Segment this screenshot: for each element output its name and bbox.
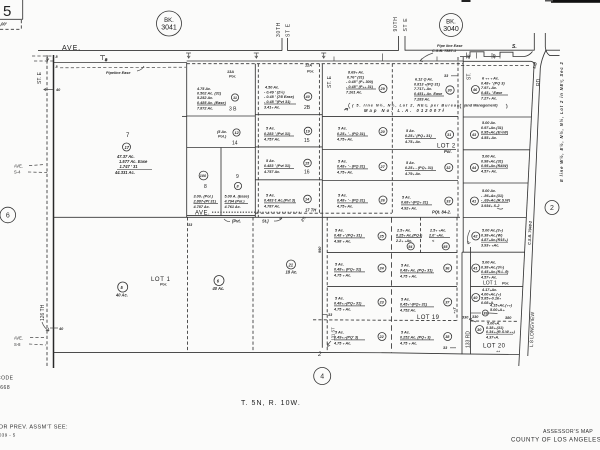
label 12A Por (305, 64, 314, 74)
svg-text:4.75₊ Ac.: 4.75₊ Ac. (336, 205, 353, 209)
label FOR PREV ASSMT (0, 425, 68, 438)
svg-text:40: 40 (305, 95, 311, 99)
row line y286.6 (327, 286, 457, 288)
parcel 6 (212, 276, 225, 292)
svg-text:CODE: CODE (0, 376, 14, 382)
svg-text:0.283 ’ (Pvt 31): 0.283 ’ (Pvt 31) (264, 132, 291, 136)
svg-text:23: 23 (379, 301, 385, 305)
vertical line x463 (462, 57, 464, 252)
svg-text:42: 42 (472, 235, 478, 239)
svg-text:3 B: 3 B (229, 107, 237, 113)
svg-text:4.752 Ac.: 4.752 Ac. (399, 309, 416, 313)
svg-text:4.757 Ac.: 4.757 Ac. (263, 138, 280, 142)
dashed row y213.2 (255, 212, 392, 214)
svg-text:- 0.48’’ (P₊₊ 31): - 0.48’’ (P₊₊ 31) (346, 85, 374, 89)
parcel 38 (399, 331, 456, 351)
pipe line ease label (top right) (420, 44, 463, 62)
svg-text:AVE.: AVE. (14, 336, 23, 341)
svg-text:380: 380 (505, 316, 512, 320)
svg-text:0.48₊ ’ (PǪ 3): 0.48₊ ’ (PǪ 3) (481, 81, 505, 85)
circle ref 4 (bottom) (314, 368, 331, 385)
svg-text:330: 330 (462, 316, 469, 320)
svg-text:0.48₊ ’ - (PǪ 31): 0.48₊ ’ - (PǪ 31) (337, 165, 366, 169)
row line y146.9 (col B) (255, 146, 322, 148)
svg-text:3.41₊ Ac.: 3.41₊ Ac. (264, 105, 280, 109)
svg-text:0.483 € Ac.(Pvt 3): 0.483 € Ac.(Pvt 3) (264, 199, 296, 203)
svg-text:BK.: BK. (164, 18, 174, 24)
svg-text:30TH: 30TH (276, 22, 282, 37)
dashed row ticks (322, 313, 469, 320)
svg-text:17 TH: 17 TH (305, 208, 317, 213)
svg-text:1.747 ’ 31: 1.747 ’ 31 (120, 164, 139, 169)
svg-text:,00': ,00' (0, 22, 8, 27)
svg-text:17: 17 (125, 145, 130, 150)
svg-text:5 Ac.: 5 Ac. (401, 264, 410, 268)
svg-text:0.813 ₊(PǪ 31): 0.813 ₊(PǪ 31) (414, 82, 441, 86)
svg-text:2.5₊ Ac.: 2.5₊ Ac. (396, 229, 411, 233)
svg-text:0.48₊₂ (PǪ₊ 31): 0.48₊₂ (PǪ₊ 31) (334, 268, 362, 272)
svg-text:26: 26 (380, 199, 386, 203)
road AVE top line (38, 50, 282, 52)
street 133 RD (462, 247, 471, 355)
svg-text:Por.: Por. (502, 282, 509, 286)
svg-text:4.757 Ac.: 4.757 Ac. (263, 170, 280, 174)
svg-text:BK.: BK. (446, 20, 456, 26)
svg-text:11: 11 (233, 96, 237, 100)
svg-text:4.37₊A.: 4.37₊A. (485, 336, 499, 340)
parcel 40 39 (452, 288, 513, 320)
svg-text:40: 40 (467, 54, 471, 60)
tick 8 on AVE (100, 56, 108, 63)
svg-text:T. 5N, R. 10W.: T. 5N, R. 10W. (241, 400, 301, 407)
svg-text:3.00₂ (Pol.): 3.00₂ (Pol.) (194, 195, 214, 199)
street 30TH ST E (top) (276, 22, 292, 51)
svg-text:4.87₊Ac.(R15₊): 4.87₊Ac.(R15₊) (480, 238, 509, 242)
svg-text:RD.: RD. (536, 77, 542, 86)
svg-text:5 Ac.: 5 Ac. (266, 194, 275, 198)
row line y114.7 (col B) (255, 114, 322, 116)
svg-text:Map No. L.A. 012007ƚ: Map No. L.A. 012007ƚ (364, 108, 446, 113)
svg-text:13A: 13A (227, 70, 234, 74)
svg-text:S-4: S-4 (14, 170, 21, 175)
svg-text:S.: S. (512, 44, 517, 50)
svg-text:2.887-(Pt 31): 2.887-(Pt 31) (193, 199, 217, 203)
svg-text:29: 29 (380, 87, 386, 91)
circle ref 6 (left edge) (0, 207, 16, 223)
svg-text:0.25₊ - (PǪ₊ 31): 0.25₊ - (PǪ₊ 31) (405, 166, 434, 170)
svg-text:5 Ac.: 5 Ac. (406, 129, 415, 133)
svg-text:14: 14 (232, 141, 238, 147)
map bottom edge (54, 352, 520, 354)
parcel 3B (196, 87, 239, 113)
row line y217.5 (col E) (463, 217, 526, 219)
svg-text:6 ₊₊ ₊ Ac.: 6 ₊₊ ₊ Ac. (482, 77, 499, 81)
parcel 30 lower / LOT 20 (469, 319, 516, 353)
AVE S-4 label (left edge) (14, 164, 47, 175)
svg-text:Por.: Por. (307, 70, 314, 74)
svg-text:4.57₊ Ac.: 4.57₊ Ac. (480, 276, 497, 280)
svg-text:- .69₊Ac.(R.S.W): - .69₊Ac.(R.S.W) (481, 199, 511, 203)
AVE approach dashes top-left (32, 56, 53, 61)
svg-text:E line W½, E½, N½, N½, Lot 2 i: E line W½, E½, N½, N½, Lot 2 in NE¼ Sec … (559, 61, 564, 182)
row line y149.8 (col E) (463, 149, 530, 151)
map top edge (54, 62, 187, 64)
svg-text:25: 25 (379, 235, 385, 239)
svg-text:40 Ac.: 40 Ac. (115, 293, 128, 298)
svg-text:PǪt. 84-2.: PǪt. 84-2. (432, 210, 451, 215)
row line y180.5 (col C,D) (322, 180, 458, 182)
parcels 54 55 row (395, 217, 450, 252)
svg-text:LOT 20: LOT 20 (483, 344, 506, 350)
svg-text:4: 4 (320, 374, 324, 381)
svg-text:4.75 ₊ Ac.: 4.75 ₊ Ac. (333, 274, 351, 278)
svg-text:46: 46 (472, 88, 478, 92)
svg-text:0.25₊ ’ - (PǪ 31): 0.25₊ ’ - (PǪ 31) (337, 132, 366, 136)
row line y149.5 (col C,D) (322, 149, 456, 151)
svg-text:990: 990 (318, 246, 322, 253)
page reference box 5 (top-left) (0, 0, 23, 29)
svg-text:ST.: ST. (467, 73, 473, 80)
svg-text:0.45₊ ’ Ease: 0.45₊ ’ Ease (481, 91, 502, 95)
svg-text:4.55₊ Ac.: 4.55₊ Ac. (480, 136, 497, 140)
svg-text:(and Management): (and Management) (464, 104, 498, 108)
AVE pvt st label (188, 208, 317, 228)
row line y179.8 (col B) (255, 179, 322, 181)
svg-text:0.48₊ ’ - (PǪ 31): 0.48₊ ’ - (PǪ 31) (337, 199, 366, 203)
svg-text:7.261 Ac.: 7.261 Ac. (346, 90, 362, 94)
svg-text:5 Ac.: 5 Ac. (266, 127, 275, 131)
svg-text:0.97₊Ac.(31): 0.97₊Ac.(31) (481, 126, 504, 130)
svg-text:- 0.48’’ (P₊ 300): - 0.48’’ (P₊ 300) (346, 80, 374, 84)
circle BK 3041 (157, 11, 182, 36)
parcel 20 (336, 127, 387, 142)
svg-text:44.331 Ac.: 44.331 Ac. (114, 170, 135, 175)
svg-text:St.): St.) (262, 219, 269, 224)
parcel 25 (333, 229, 386, 244)
parcel 16 (263, 159, 311, 176)
pipeline ease dashed (60, 66, 186, 75)
svg-text:0.95₊Ac.(E½W): 0.95₊Ac.(E½W) (481, 131, 509, 135)
svg-text:5 Ac.: 5 Ac. (266, 159, 275, 163)
svg-text:0.483 ’ (Pvt 31): 0.483 ’ (Pvt 31) (264, 164, 291, 168)
svg-text:4.50 Ac.: 4.50 Ac. (264, 86, 279, 90)
svg-text:ST E: ST E (286, 23, 292, 37)
svg-text:ST. E: ST. E (327, 75, 333, 88)
tick arrows on top boundary (186, 53, 437, 61)
svg-text:7.717₊ Ac.: 7.717₊ Ac. (414, 87, 432, 91)
svg-text:330: 330 (472, 315, 479, 319)
svg-text:4668: 4668 (0, 385, 10, 391)
svg-text:4.75 ₊ Ac.: 4.75 ₊ Ac. (333, 308, 351, 312)
label CODE 4668 (0, 376, 14, 392)
svg-text:5 Ac.: 5 Ac. (406, 161, 415, 165)
RD label (532, 61, 542, 86)
parcel 8/9 bottom y215.6 (187, 215, 256, 217)
svg-text:5 Ac.: 5 Ac. (335, 229, 344, 233)
svg-text:0.25₊’ (PǪ₊ 31): 0.25₊’ (PǪ₊ 31) (405, 134, 432, 138)
label ASSESSOR'S MAP (511, 429, 600, 444)
svg-text:8.69₊ Ac.: 8.69₊ Ac. (348, 71, 364, 75)
svg-text:5: 5 (3, 3, 11, 20)
road LONGVIEW (diagonal right) (519, 51, 546, 367)
row line y252.6 (327, 252, 457, 254)
svg-text:5 Ac.: 5 Ac. (338, 127, 347, 131)
svg-text:5 Ac.: 5 Ac. (335, 263, 344, 267)
svg-text:6.12 Ǫ Ac.: 6.12 Ǫ Ac. (415, 78, 433, 82)
svg-text:4.794 (Pol.): 4.794 (Pol.) (224, 199, 246, 203)
parcel 42 (472, 229, 509, 248)
svg-text:5.00₊A₊.: 5.00₊A₊. (490, 308, 505, 312)
parcel 33 (400, 196, 453, 211)
svg-text:3.934₊ S-2: 3.934₊ S-2 (481, 204, 500, 208)
svg-text:21: 21 (288, 262, 294, 267)
svg-text:40 Ac.: 40 Ac. (212, 286, 225, 291)
svg-text:Por.: Por. (444, 149, 452, 154)
svg-text:44: 44 (471, 166, 477, 170)
road AVE pvt solid line y217.3 (54, 216, 461, 218)
svg-text:24: 24 (379, 267, 385, 271)
svg-text:18 Ac.: 18 Ac. (286, 270, 298, 275)
street 131 ST label (bottom) (317, 327, 336, 358)
vertical line x458 dashed (D/E boundary) (457, 57, 459, 217)
svg-text:0.95₊Ac.(R&W): 0.95₊Ac.(R&W) (481, 164, 509, 168)
svg-text:FOR PREV. ASSM’T SEE:: FOR PREV. ASSM’T SEE: (0, 425, 68, 431)
svg-text:LOT 1: LOT 1 (483, 281, 497, 287)
parcel 26 (336, 194, 387, 209)
svg-text:5 Ac.: 5 Ac. (401, 298, 410, 302)
svg-text:100: 100 (200, 174, 207, 178)
svg-text:0.38₊Ac.(W): 0.38₊Ac.(W) (481, 233, 503, 237)
annotation S line (344, 103, 460, 113)
svg-text:2: 2 (317, 352, 322, 358)
parcel 37 / LOT 19 (399, 298, 452, 322)
row line y117 (col E) (463, 116, 531, 118)
svg-text:7.283 Ac.: 7.283 Ac. (414, 97, 430, 101)
svg-text:4.787 Ac.: 4.787 Ac. (263, 205, 280, 209)
svg-text:40: 40 (58, 327, 64, 331)
parcel 44 (470, 155, 508, 174)
svg-text:40: 40 (493, 53, 497, 59)
svg-text:5 Ac.: 5 Ac. (338, 160, 347, 164)
svg-text:16: 16 (304, 170, 310, 176)
parcel 17 (263, 194, 311, 209)
svg-text:0.45₊Ac.(R.L.ℎ): 0.45₊Ac.(R.L.ℎ) (481, 270, 509, 274)
svg-text:4.75 ₊ Ac.: 4.75 ₊ Ac. (399, 275, 417, 279)
svg-text:41: 41 (471, 200, 476, 204)
svg-text:9: 9 (236, 174, 239, 180)
svg-text:40: 40 (55, 88, 61, 92)
parcel 27 (336, 160, 387, 175)
label 13A Por (227, 70, 236, 79)
svg-text:0.502 Ac. (31): 0.502 Ac. (31) (197, 92, 222, 96)
svg-text:12A: 12A (305, 64, 312, 68)
svg-text:0.48₊ Ac. (PǪ₊ 31): 0.48₊ Ac. (PǪ₊ 31) (400, 269, 433, 273)
svg-text:5.00 Ac.: 5.00 Ac. (482, 261, 496, 265)
parcel 8 (193, 171, 219, 209)
svg-text:41: 41 (472, 267, 477, 271)
svg-text:LOT 19: LOT 19 (417, 315, 440, 321)
svg-text:6: 6 (6, 213, 10, 220)
svg-text:4.75 ₊ Ac.: 4.75 ₊ Ac. (333, 342, 351, 346)
AVE S-8 label (left edge lower) (14, 336, 46, 347)
svg-text:5.00 Ac.: 5.00 Ac. (482, 189, 496, 193)
svg-text:2B: 2B (304, 105, 311, 111)
parcel 24 (333, 263, 386, 278)
vertical line x186 (parcel 7 east) (186, 63, 188, 218)
svg-text:4.75 Ac.: 4.75 Ac. (196, 87, 211, 91)
svg-text:0.76’’ (31): 0.76’’ (31) (347, 75, 365, 79)
parcel 2B (264, 86, 312, 112)
svg-text:5.252 Ac.: 5.252 Ac. (197, 96, 213, 100)
vertical line x255 (254, 64, 256, 218)
parcel 5 (115, 282, 128, 298)
svg-text:ST. E: ST. E (37, 71, 43, 84)
vertical divider parcels 8/9 (220, 148, 222, 216)
svg-text:COUNTY OF LOS ANGELES,: COUNTY OF LOS ANGELES, (511, 437, 600, 444)
svg-text:4.761 Ac.: 4.761 Ac. (224, 205, 241, 209)
svg-text:- 0.49 ’ (2½): - 0.49 ’ (2½) (264, 90, 285, 94)
svg-text:5 Ac.: 5 Ac. (402, 196, 411, 200)
svg-text:0.451₊ Ac. Ease: 0.451₊ Ac. Ease (414, 92, 442, 96)
svg-text:(5 Ac.: (5 Ac. (217, 130, 227, 134)
parcel 36 (399, 264, 452, 279)
svg-text:3040: 3040 (443, 26, 459, 33)
svg-text:4.75₊ Ac.: 4.75₊ Ac. (336, 171, 353, 175)
dashed row y320 (313, 319, 457, 322)
svg-text:5.00 Ac.(3₊): 5.00 Ac.(3₊) (482, 229, 504, 233)
circle ref 2 (right edge) (545, 201, 559, 215)
parcel 41 lower / LOT 1 Por (467, 230, 509, 287)
svg-text:0.68₊’-(PǪ₊ 31): 0.68₊’-(PǪ₊ 31) (401, 201, 429, 205)
svg-text:- 0.48 ’ (7⁄8 Ease): - 0.48 ’ (7⁄8 Ease) (264, 95, 295, 99)
svg-text:0.34₊-(R.S.W.₊₊): 0.34₊-(R.S.W.₊₊) (486, 330, 516, 334)
svg-text:15: 15 (304, 138, 310, 144)
svg-text:(Pvt.: (Pvt. (232, 219, 241, 224)
svg-text:5.00 Ac.: 5.00 Ac. (482, 121, 496, 125)
svg-text:4.98 ₊ Ac.: 4.98 ₊ Ac. (333, 240, 351, 244)
svg-text:AVE.: AVE. (14, 164, 23, 169)
parcel 30 (414, 74, 458, 101)
parcel 29 (346, 71, 387, 95)
parcel 21 (286, 260, 298, 275)
svg-text:90TH: 90TH (393, 16, 399, 31)
svg-text:ST E: ST E (403, 18, 409, 32)
svg-text:3041: 3041 (161, 25, 177, 32)
svg-text:2.0’ ₊Ac.: 2.0’ ₊Ac. (428, 233, 444, 237)
svg-text:133 RD: 133 RD (465, 331, 471, 348)
svg-text:5.00 Ac.: 5.00 Ac. (482, 155, 496, 159)
svg-text:0.252 Ac. (PǪ₊ 3): 0.252 Ac. (PǪ₊ 3) (400, 336, 431, 340)
svg-text:Pipeline Ease: Pipeline Ease (106, 71, 130, 75)
svg-text:Por.: Por. (229, 75, 236, 79)
svg-text:0.48 ₊’ (PǪ₊ 31): 0.48 ₊’ (PǪ₊ 31) (334, 234, 362, 238)
svg-text:7.872 Ac.: 7.872 Ac. (197, 106, 213, 110)
svg-text:2: 2 (550, 205, 554, 212)
svg-text:40: 40 (472, 296, 478, 300)
street ST E left (vertical, west boundary) (37, 55, 61, 368)
parcel 43 (470, 121, 508, 140)
svg-text:5 Ac.: 5 Ac. (338, 194, 347, 198)
svg-text:0.98₊Ac.(31): 0.98₊Ac.(31) (481, 159, 504, 163)
svg-text:0.45₊’-(PǪ₊ 31): 0.45₊’-(PǪ₊ 31) (400, 303, 428, 307)
svg-text:Pipe line Ease: Pipe line Ease (437, 44, 463, 48)
svg-text:31: 31 (447, 133, 451, 137)
svg-text:4.92₊ Ac.: 4.92₊ Ac. (400, 207, 417, 211)
svg-text:43: 43 (471, 133, 477, 137)
svg-text:7.27₊ Ac.: 7.27₊ Ac. (481, 96, 497, 100)
parcel 15 (263, 127, 312, 145)
svg-text:4.57₊ Ac.: 4.57₊ Ac. (480, 170, 497, 174)
svg-text:4.75₊ Ac.: 4.75₊ Ac. (404, 140, 421, 144)
label LOT 1 (151, 277, 171, 287)
svg-text:4.75 ₊ Ac.: 4.75 ₊ Ac. (399, 342, 417, 346)
svg-text:5 Ac.: 5 Ac. (401, 331, 410, 335)
svg-text:- 0.48 ’’(Pvt 31): - 0.48 ’’(Pvt 31) (264, 100, 291, 104)
svg-text:- .86₊Ac.(31): - .86₊Ac.(31) (481, 194, 504, 198)
parcel jogs along AVE (right) (460, 52, 533, 57)
top boundary line right section (463, 60, 531, 62)
row line y183 (col E) (463, 182, 528, 184)
svg-text:0.25₊ Ac.(PǪ₊): 0.25₊ Ac.(PǪ₊) (396, 233, 423, 237)
parcel 22 (333, 331, 386, 346)
road cross street top right (534, 33, 559, 55)
svg-text:4.75₊ Ac.: 4.75₊ Ac. (336, 138, 353, 142)
svg-text:2.5₊ ₊Ac.: 2.5₊ ₊Ac. (429, 229, 446, 233)
row line y147.5 (col A) (187, 147, 256, 149)
svg-text:5 Ac.: 5 Ac. (335, 331, 344, 335)
street 90TH ST E (top) (393, 16, 409, 50)
svg-text:Por.: Por. (160, 283, 167, 287)
svg-text:Pol.): Pol.) (218, 135, 227, 139)
svg-text:AVE.: AVE. (195, 211, 210, 217)
parcel 23 (333, 297, 386, 312)
scan mark top-right (551, 0, 600, 3)
svg-text:22: 22 (379, 335, 385, 339)
parcel 31 / LOT 2 (404, 129, 456, 154)
svg-text:3039 - 5: 3039 - 5 (0, 433, 16, 438)
svg-text:27: 27 (380, 165, 386, 169)
svg-text:2.2₊ ₊Ac.: 2.2₊ ₊Ac. (395, 239, 412, 243)
svg-text:0.485 Ac. (Ease): 0.485 Ac. (Ease) (197, 101, 227, 105)
svg-text:0.48₊₂-(PǪ₊ 31): 0.48₊₂-(PǪ₊ 31) (334, 302, 362, 306)
parcel 9 (224, 174, 250, 209)
svg-text:4.79₊ Ac.: 4.79₊ Ac. (404, 172, 421, 176)
circle BK 3040 (440, 14, 463, 37)
svg-text:L 8 LONGVIEW: L 8 LONGVIEW (529, 311, 536, 347)
parcel 14 (217, 129, 240, 147)
svg-text:0.38₊Ac.(3½): 0.38₊Ac.(3½) (481, 265, 505, 269)
dotted upper road edge (212, 211, 255, 213)
svg-text:C.S.B. 7887-1: C.S.B. 7887-1 (432, 49, 456, 53)
svg-text:8: 8 (204, 184, 207, 190)
ticks 40 40 on AVE (467, 53, 501, 61)
street 126TH label (40, 304, 64, 331)
svg-text:5.00 A. (Ease): 5.00 A. (Ease) (225, 195, 250, 199)
parcel 7 (114, 133, 152, 175)
svg-text:7.97₊ Ac.: 7.97₊ Ac. (481, 86, 497, 90)
parcel 46 (460, 77, 508, 109)
parcel 32 (404, 161, 453, 176)
svg-text:4.787 Ac.: 4.787 Ac. (193, 205, 210, 209)
row line y116.4 (col C,D) (182, 115, 187, 117)
vertical line x392 (391, 64, 393, 213)
svg-text:20: 20 (380, 130, 386, 134)
svg-text:S-8: S-8 (14, 342, 21, 347)
svg-text:ASSESSOR’S MAP: ASSESSOR’S MAP (543, 429, 593, 435)
parcel 41 upper (470, 189, 510, 209)
svg-text:126 TH: 126 TH (40, 304, 46, 321)
svg-text:0.49₊₂-(PǪ’ 3): 0.49₊₂-(PǪ’ 3) (334, 336, 359, 340)
